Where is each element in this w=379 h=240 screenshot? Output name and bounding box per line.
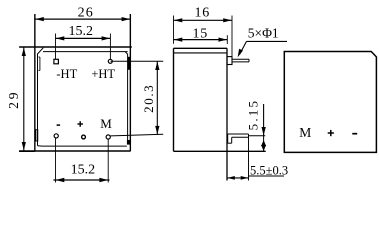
svg-text:5×Φ1: 5×Φ1 — [248, 25, 279, 40]
svg-text:M: M — [100, 116, 112, 131]
svg-text:20.3: 20.3 — [141, 84, 156, 113]
svg-text:15.2: 15.2 — [69, 24, 94, 39]
svg-text:5.5±0.3: 5.5±0.3 — [250, 163, 288, 177]
svg-text:29: 29 — [6, 90, 21, 109]
svg-text:16: 16 — [194, 5, 210, 20]
svg-text:5.15: 5.15 — [246, 99, 261, 131]
svg-text:-HT: -HT — [56, 67, 77, 81]
svg-text:+HT: +HT — [91, 67, 115, 81]
svg-text:M: M — [299, 125, 311, 140]
svg-text:15: 15 — [192, 27, 208, 42]
svg-text:26: 26 — [78, 6, 94, 21]
svg-text:15.2: 15.2 — [71, 163, 96, 178]
